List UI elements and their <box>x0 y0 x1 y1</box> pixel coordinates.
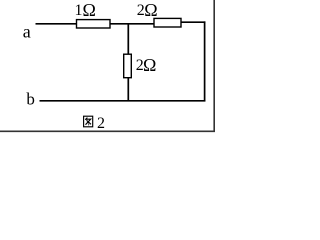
svg-text:1: 1 <box>75 2 83 19</box>
wire: R2 to top-right corner <box>181 21 205 23</box>
resistor R1 1Ω body <box>77 20 111 28</box>
svg-text:a: a <box>23 21 31 41</box>
frame: right border of containing cell <box>213 0 215 131</box>
wire a: top-left horizontal segment <box>36 23 78 25</box>
wire: below middle resistor <box>127 78 129 101</box>
svg-text:2: 2 <box>97 115 105 132</box>
frame: bottom border of containing cell <box>0 130 215 132</box>
wire: right vertical <box>204 21 206 101</box>
svg-text:Ω: Ω <box>144 0 157 20</box>
svg-text:b: b <box>26 90 35 109</box>
wire b: bottom horizontal <box>40 100 206 102</box>
node: junction of middle branch on top wire <box>127 24 129 55</box>
svg-text:Ω: Ω <box>83 0 96 20</box>
wire: between R1 and R2, crossing node <box>110 23 155 25</box>
caption glyph 图 (drawn) <box>84 116 93 127</box>
resistor R3 2Ω body (middle vertical) <box>124 54 132 77</box>
resistor R2 2Ω body (top right) <box>154 18 181 27</box>
svg-text:Ω: Ω <box>143 55 156 75</box>
